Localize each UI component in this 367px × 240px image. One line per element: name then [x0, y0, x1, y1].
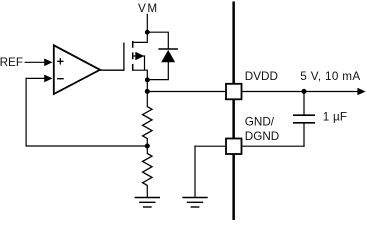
- wire R2 to ground: [146, 185, 148, 198]
- capacitor C1 bottom plate: [293, 122, 315, 124]
- arrowhead DVDD output: [357, 88, 365, 96]
- transistor M1 channel bar source: [132, 64, 134, 71]
- capacitor C1 top plate: [293, 114, 315, 116]
- capacitor C1 bottom lead: [303, 123, 305, 147]
- wire node B to DVDD pin: [147, 91, 226, 93]
- op-amp + symbol: [57, 58, 63, 64]
- op-amp U1: [54, 45, 100, 94]
- device boundary thick line: [232, 2, 235, 221]
- wire DVDD output: [242, 91, 360, 93]
- wire feedback from - input left: [26, 77, 46, 79]
- resistor R1: [143, 107, 152, 139]
- transistor M1 channel bar drain: [132, 41, 134, 48]
- svg-text:DVDD: DVDD: [245, 70, 278, 83]
- wire feedback vertical: [25, 78, 27, 147]
- svg-text:GND/: GND/: [245, 116, 275, 129]
- diode D1 triangle: [161, 50, 175, 62]
- node D junction dot (cap tap): [302, 89, 307, 94]
- node VM junction dot: [145, 30, 150, 35]
- svg-text:DGND: DGND: [245, 130, 279, 143]
- arrowhead into - input (feedback): [44, 75, 52, 83]
- wire op-amp output to gate: [99, 43, 124, 71]
- diode D1 cathode lead: [147, 32, 168, 49]
- resistor R2: [143, 153, 152, 185]
- arrowhead into + input: [44, 59, 52, 67]
- svg-text:VM: VM: [138, 2, 159, 15]
- pin GND/DGND box: [226, 139, 242, 155]
- node C junction dot (divider midpoint): [145, 143, 150, 148]
- node B junction dot (DVDD branch): [145, 89, 150, 94]
- node A junction dot (source/diode): [145, 77, 150, 82]
- wire ground lead vertical: [194, 146, 196, 198]
- op-amp - symbol: [57, 78, 64, 80]
- wire drain up to VM node: [133, 32, 148, 43]
- wire R1 to R2: [146, 138, 148, 154]
- pin DVDD box: [226, 84, 242, 100]
- wire GND pin to ground: [194, 145, 226, 147]
- wire body to source: [133, 56, 144, 70]
- wire cap bottom to GND pin: [242, 145, 305, 147]
- transistor M1 channel bar body: [132, 52, 134, 59]
- wire source down to node A: [133, 70, 148, 107]
- ground (DGND): [182, 198, 207, 208]
- diode D1 cathode bar: [158, 48, 178, 50]
- ground (below R2): [135, 198, 160, 208]
- svg-text:5 V, 10 mA: 5 V, 10 mA: [300, 70, 360, 83]
- wire REF to op-amp + input: [25, 61, 46, 63]
- wire feedback bottom to divider midpoint: [26, 145, 148, 147]
- transistor M1 body arrow: [135, 52, 144, 60]
- svg-text:1 µF: 1 µF: [323, 111, 347, 124]
- capacitor C1 top lead: [303, 92, 305, 116]
- svg-text:REF: REF: [0, 56, 23, 69]
- diode D1 anode lead: [147, 62, 168, 80]
- wire VM lead: [146, 14, 148, 33]
